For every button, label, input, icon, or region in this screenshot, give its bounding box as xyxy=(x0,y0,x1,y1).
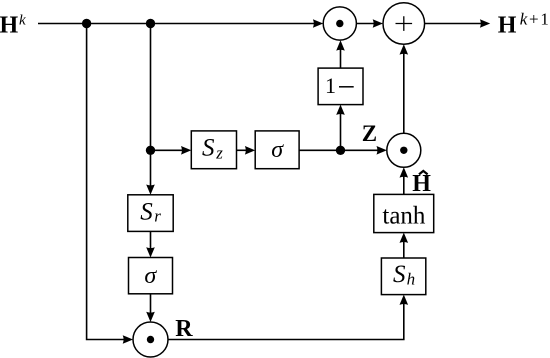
wire plus to output xyxy=(425,19,491,28)
svg-text:h: h xyxy=(407,270,416,289)
node junction top left xyxy=(82,19,91,28)
node junction top second xyxy=(146,19,155,28)
svg-text:H: H xyxy=(412,171,431,197)
wire junction Z up to 1minus box xyxy=(336,105,345,151)
wire mult R right and up to Sh xyxy=(168,295,408,340)
svg-text:k+1: k+1 xyxy=(520,10,550,29)
svg-text:S: S xyxy=(393,261,406,288)
box sigma z xyxy=(255,131,299,169)
wire left branch down and to mult R xyxy=(87,24,133,344)
multiplier circle U3 z gate xyxy=(387,133,421,167)
box sigma r xyxy=(129,258,173,294)
svg-text:σ: σ xyxy=(144,263,157,289)
svg-text:S: S xyxy=(140,198,153,225)
svg-text:tanh: tanh xyxy=(382,203,426,230)
wire Sr down to sigma2 xyxy=(146,231,155,257)
wire mult1 to plus xyxy=(356,19,383,28)
svg-text:H: H xyxy=(0,12,19,38)
svg-text:S: S xyxy=(202,135,215,162)
svg-text:1: 1 xyxy=(325,73,336,98)
wire 1minus box up to mult1 xyxy=(336,40,345,68)
svg-text:k: k xyxy=(19,13,26,29)
box Sh xyxy=(381,258,425,295)
svg-text:H: H xyxy=(498,12,517,38)
wire Sh up to tanh xyxy=(400,233,409,258)
svg-text:z: z xyxy=(215,144,223,163)
box tanh xyxy=(374,194,434,232)
svg-text:σ: σ xyxy=(271,137,284,163)
adder circle U2 plus xyxy=(383,3,425,45)
multiplier circle U4 r gate xyxy=(133,322,168,357)
svg-text:R: R xyxy=(175,316,193,342)
wire mult Z up to plus xyxy=(400,44,409,133)
node junction Z line xyxy=(336,146,345,155)
node junction middle Sz branch xyxy=(146,146,155,155)
wire sigma2 down to mult R xyxy=(146,294,155,322)
wire second branch down to Sr xyxy=(146,24,155,195)
wire sigma to mult Z xyxy=(299,146,387,155)
box Sr xyxy=(128,195,173,232)
multiplier circle U1 top elementwise product xyxy=(323,7,356,40)
box Sz xyxy=(191,131,236,169)
svg-text:Z: Z xyxy=(362,121,377,146)
wire Sz to sigma xyxy=(237,146,256,155)
wire tanh up to mult Z xyxy=(400,167,409,194)
wire top main from Hk to mult1 xyxy=(38,19,323,28)
wire junction to Sz xyxy=(151,146,192,155)
box 1minus xyxy=(318,68,363,105)
svg-text:r: r xyxy=(154,206,161,225)
